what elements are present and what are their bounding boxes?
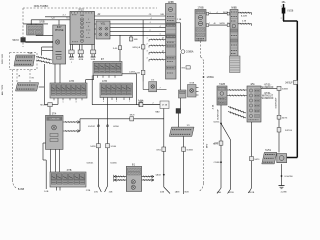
bus wire lower	[80, 118, 164, 120]
connector 5-1/5	[140, 92, 142, 102]
switch symbols 37/4	[50, 134, 58, 137]
svg-text:34/3LF: 34/3LF	[285, 82, 293, 85]
wire roof console to sunroof switch 1	[206, 13, 230, 15]
connector table below switch	[230, 56, 241, 73]
svg-text:MFD 31/8: MFD 31/8	[2, 53, 4, 63]
svg-text:ABL TYPE: ABL TYPE	[1, 84, 4, 95]
wire to phone pin 4	[42, 50, 53, 52]
splice C/085A	[181, 50, 185, 54]
svg-text:1: 1	[71, 62, 72, 64]
dark connector M/51	[176, 109, 181, 114]
svg-text:4: 4	[88, 26, 89, 28]
wire to instrument cluster pin	[31, 19, 70, 21]
bus wire upper	[92, 104, 160, 106]
svg-text:7: 7	[129, 101, 130, 103]
switch pack 9/7	[93, 62, 122, 76]
svg-text:2: 2	[149, 30, 150, 32]
wire VOL to switch pack 9/7	[119, 35, 121, 61]
svg-text:2: 2	[116, 101, 117, 103]
connector 34/73	[277, 115, 281, 119]
svg-text:G/1B: G/1B	[189, 83, 195, 85]
junction box 27 1B	[160, 101, 169, 109]
twisted 74/2 to relay strip 2	[227, 95, 247, 97]
svg-text:5/4B: 5/4B	[91, 59, 96, 61]
svg-text:3-40: 3-40	[113, 48, 118, 50]
svg-text:7A/51: 7A/51	[265, 149, 272, 152]
connector 53/72 on dashed border	[21, 38, 26, 43]
svg-text:4: 4	[159, 26, 160, 28]
wire clock to CEM 4	[110, 34, 166, 36]
connector 54/2B left	[97, 144, 101, 148]
svg-text:1/050A: 1/050A	[207, 76, 215, 79]
svg-text:3/7B: 3/7B	[67, 170, 72, 172]
svg-text:MFD: MFD	[207, 143, 209, 148]
svg-text:8-6/66: 8-6/66	[110, 163, 117, 165]
svg-text:B-098: B-098	[18, 189, 25, 191]
svg-text:5A/44: 5A/44	[156, 174, 162, 177]
svg-text:74/2B: 74/2B	[219, 84, 225, 86]
wire A2 cluster to CEM	[95, 15, 166, 17]
courtesy lamp 7/3 rear	[169, 127, 194, 136]
sunroof harness wire down	[278, 90, 280, 115]
central electronic module 12/8B strip	[166, 4, 177, 80]
connector MC8 on lower bus	[130, 117, 134, 121]
sunroof control microtext	[219, 88, 225, 90]
svg-text:1/7B: 1/7B	[102, 81, 107, 83]
svg-text:NON-TURBO: NON-TURBO	[34, 5, 49, 8]
wire clock to CEM 1	[110, 23, 166, 25]
svg-text:54/2B: 54/2B	[90, 146, 96, 148]
svg-text:4 J: 4 J	[63, 15, 66, 17]
svg-text:8/29B: 8/29B	[228, 192, 234, 194]
svg-text:4/4B: 4/4B	[160, 192, 165, 194]
svg-text:4 1B: 4 1B	[213, 104, 215, 109]
power wire to right edge	[283, 20, 297, 22]
svg-text:34/2B: 34/2B	[223, 12, 229, 14]
switch pack 1/7B right	[100, 83, 133, 98]
wire feed to phone module	[58, 20, 60, 25]
wire lamp to bus	[142, 82, 144, 90]
twisted stub right 1	[238, 12, 252, 14]
svg-text:1: 1	[159, 34, 160, 36]
svg-text:50/561: 50/561	[213, 121, 220, 123]
svg-text:34/7LB: 34/7LB	[285, 130, 292, 132]
svg-text:DIM: DIM	[80, 15, 84, 17]
svg-text:C/5NB: C/5NB	[214, 162, 221, 164]
svg-text:1: 1	[63, 101, 64, 103]
connector 34/3LF on power wire	[294, 80, 298, 84]
roof console microtext	[197, 12, 205, 14]
svg-text:6/556: 6/556	[113, 126, 119, 128]
connector 3-4B	[141, 70, 145, 74]
wire to instrument cluster pin 2	[45, 16, 70, 18]
svg-text:37/4: 37/4	[52, 113, 57, 115]
switch pack 1/7B left bottom pins	[53, 98, 55, 100]
clock module VOL	[96, 21, 110, 39]
wire R1 to R2	[93, 76, 95, 80]
svg-text:8-50/390: 8-50/390	[285, 176, 294, 178]
connector 54/2B right	[106, 144, 110, 148]
connector 34/5Q-B	[141, 45, 145, 49]
svg-text:2/7B: 2/7B	[86, 190, 91, 192]
svg-text:A 4/2B: A 4/2B	[241, 15, 248, 18]
connector 9A/73	[219, 141, 223, 145]
svg-text:8/2B: 8/2B	[184, 192, 189, 194]
svg-text:2: 2	[88, 33, 89, 35]
connector 14/1B on bus	[139, 103, 143, 107]
cluster bottom pins	[69, 45, 71, 58]
svg-text:5/5B: 5/5B	[39, 21, 44, 24]
diode module below CEM	[179, 90, 187, 98]
connector 34/5B	[277, 86, 281, 90]
sunroof motor 7A/51	[262, 152, 277, 164]
svg-text:6/201B: 6/201B	[248, 192, 255, 194]
svg-text:4 4B: 4 4B	[242, 21, 247, 23]
wire splice diagonal to motor circuit	[221, 123, 231, 140]
reading lamp unit 37/4	[46, 115, 64, 149]
wire tyre module to phone down-wire	[39, 86, 45, 88]
dashed wire below roof console	[200, 41, 202, 57]
wire down to splice C/5NB	[220, 145, 222, 162]
phone module contact symbols	[56, 51, 62, 53]
lamp symbol 37/4	[52, 125, 57, 130]
svg-text:1: 1	[146, 38, 147, 40]
in-line connectors below cluster	[69, 50, 74, 54]
ground hooks center bottom	[98, 186, 101, 192]
relay 5/5	[27, 25, 43, 35]
wire R3 pin down long	[107, 98, 109, 187]
control module 8/37 PHONE	[53, 25, 66, 64]
svg-text:3: 3	[146, 51, 147, 53]
svg-text:17/9B: 17/9B	[197, 8, 203, 10]
svg-text:3-5/60: 3-5/60	[111, 146, 118, 148]
svg-text:7/98: 7/98	[28, 53, 33, 55]
connector G4/5B	[182, 147, 186, 151]
wire relay strip to sunroof harness	[261, 88, 277, 90]
svg-text:1: 1	[88, 19, 89, 21]
wire bus right	[142, 104, 160, 106]
wire 7/3 down	[183, 136, 185, 194]
switch pack 1/7B left	[50, 83, 87, 98]
wire from lower bus down	[97, 119, 99, 186]
svg-text:6/2001: 6/2001	[87, 163, 94, 165]
svg-text:M/5Q-B: M/5Q-B	[133, 47, 141, 49]
connector MC8/1B	[130, 35, 132, 37]
wire relay to phone module	[35, 34, 37, 37]
wires phone to switch pack	[54, 64, 56, 83]
twisted sloped 1	[228, 107, 246, 114]
twisted 74/2 to relay strip 1	[227, 89, 247, 91]
svg-text:SUNROOF: SUNROOF	[262, 97, 274, 100]
twisted pair into 9/1 left	[114, 176, 126, 178]
svg-text:53/72: 53/72	[13, 39, 20, 42]
glove box lamp G/1B	[188, 85, 197, 98]
wire junction down	[163, 109, 165, 148]
svg-text:VOL: VOL	[101, 22, 106, 25]
svg-text:27 1B: 27 1B	[162, 105, 168, 107]
connector 34/51 on relay output	[250, 157, 254, 161]
wire R1 right to hazard	[122, 73, 137, 75]
cluster indicator lamps	[80, 18, 83, 21]
svg-text:2-09B: 2-09B	[281, 191, 287, 193]
interior lamp 1/5	[149, 82, 157, 92]
combined instrument X/15	[70, 12, 95, 45]
svg-text:2: 2	[281, 18, 282, 20]
switch pack 3/7B lower	[50, 172, 86, 187]
pins cluster to clock	[95, 23, 97, 25]
wire cluster to CEM 2	[95, 19, 166, 21]
relay module microtext	[255, 90, 259, 92]
svg-text:M/8B: M/8B	[231, 8, 237, 10]
svg-text:L4/1B: L4/1B	[129, 72, 135, 74]
svg-text:I 9/26: I 9/26	[287, 10, 294, 13]
svg-text:12/8B: 12/8B	[168, 2, 174, 4]
svg-text:NAV: NAV	[155, 110, 160, 113]
svg-text:40: 40	[213, 23, 215, 25]
sunroof switch M/8B	[230, 10, 238, 57]
sunroof switch microtext	[231, 11, 237, 13]
twisted pair 37/4 to bus	[63, 121, 80, 123]
dashed border lower-left vertical	[11, 70, 13, 181]
twisted sloped 2	[228, 112, 246, 119]
wire relay strip down to ground	[251, 122, 253, 188]
svg-text:3: 3	[76, 101, 77, 103]
svg-text:4: 4	[103, 101, 104, 103]
fuse 9/26 feed wire	[283, 4, 285, 21]
svg-text:G4/5B: G4/5B	[187, 150, 194, 152]
wires 37/4 to lower switch pack	[49, 149, 51, 172]
wire relay coil	[23, 23, 48, 25]
wire motor down	[281, 164, 283, 176]
svg-text:4: 4	[216, 12, 217, 14]
svg-text:34/2B: 34/2B	[219, 23, 225, 25]
wire roof console to sunroof switch 2	[206, 24, 230, 26]
wire 37/4 left down to ground	[43, 142, 46, 144]
relay 7/98 (optional)	[14, 55, 35, 66]
cluster top pin row	[71, 12, 73, 13]
connector G/51	[162, 147, 166, 151]
svg-text:34B: 34B	[134, 39, 138, 41]
svg-text:SUNROOF: SUNROOF	[262, 86, 274, 89]
svg-text:1: 1	[281, 6, 282, 8]
svg-text:1A/M: 1A/M	[175, 191, 180, 194]
wire clock to CEM 3	[110, 31, 166, 33]
sunroof control unit 74/2	[217, 86, 227, 105]
svg-text:J: J	[150, 22, 151, 24]
wire down from CEM feed	[142, 20, 144, 82]
wire to courtesy lamp switch	[49, 107, 51, 116]
wire phone down left side	[43, 64, 45, 104]
dashed option border top (non-turbo region)	[23, 7, 157, 9]
svg-text:4: 4	[146, 58, 147, 60]
CEM strip microtext	[167, 16, 174, 18]
wire clock to CEM 2	[110, 27, 166, 29]
connector MC8/2	[48, 103, 52, 107]
svg-text:SUNROOF: SUNROOF	[276, 97, 278, 109]
svg-text:34/51: 34/51	[254, 159, 260, 161]
fuse 9/26	[282, 8, 285, 14]
svg-text:COM/DOM: COM/DOM	[49, 119, 59, 121]
switch pack 1/7B right bottom pins	[103, 98, 105, 101]
splice 1/050A on dashed	[203, 76, 205, 78]
svg-text:8/2B: 8/2B	[79, 59, 84, 61]
svg-text:34/73: 34/73	[282, 117, 288, 119]
svg-text:9A/73: 9A/73	[213, 142, 219, 145]
svg-text:G/51: G/51	[156, 150, 162, 152]
twisted pair relay 7/98 to phone	[36, 57, 52, 61]
svg-text:PHONE: PHONE	[55, 29, 64, 32]
roof console 17/9B	[195, 10, 206, 42]
sunroof relay module 4/5x	[247, 86, 261, 122]
svg-text:7: 7	[209, 23, 210, 25]
wire 74/2 down to splice	[220, 105, 222, 123]
svg-text:2 1B: 2 1B	[177, 19, 182, 21]
wire R2 bottom loop	[57, 98, 59, 104]
wire CEM right to dome feed	[176, 22, 180, 24]
svg-text:15L: 15L	[281, 0, 286, 4]
connector 34/7LB	[277, 128, 281, 132]
twisted stub right 2	[238, 23, 252, 25]
phone module lamp symbol	[55, 40, 59, 44]
switch pack 9/7 bottom pins	[97, 76, 99, 78]
dashed outline around relay 7/98	[10, 53, 38, 70]
dashed option border left vertical	[22, 8, 24, 37]
bracket connector M/5	[186, 66, 190, 69]
reading lamp unit 9/1	[126, 166, 141, 191]
svg-text:2: 2	[146, 44, 147, 46]
svg-text:X/15: X/15	[78, 7, 84, 11]
svg-text:SUNROOF: SUNROOF	[218, 108, 220, 120]
connector 3-40	[118, 46, 121, 50]
tyre pressure module	[16, 83, 39, 91]
svg-text:1/7B: 1/7B	[69, 81, 74, 83]
wire junction lower	[163, 151, 165, 174]
ground terminal rear	[279, 185, 285, 187]
twisted pair into 9/1 right	[142, 176, 154, 178]
clock gauges	[99, 27, 102, 30]
dashed wires to tyre module	[16, 70, 18, 83]
wire parallel down right	[230, 140, 232, 189]
wire R1 right pin down	[91, 76, 93, 105]
svg-text:MC8: MC8	[130, 115, 135, 117]
svg-text:61/532: 61/532	[88, 126, 95, 128]
twisted pairs into CEM	[149, 39, 166, 41]
svg-text:C/085A: C/085A	[186, 51, 194, 54]
svg-text:MC8/2: MC8/2	[40, 105, 47, 107]
svg-text:1: 1	[209, 12, 210, 14]
svg-text:7: 7	[159, 88, 160, 90]
switch pack ground stubs	[56, 187, 58, 191]
wire to phone pin 3	[42, 46, 53, 48]
thick wire from connector 53/72 to phone	[25, 41, 52, 43]
svg-text:1-0B: 1-0B	[44, 191, 49, 193]
svg-text:34/5B: 34/5B	[282, 89, 288, 91]
